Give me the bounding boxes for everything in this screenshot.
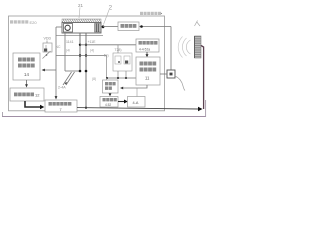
svg-text:14: 14 xyxy=(24,72,29,77)
svg-text:7: 7 xyxy=(60,108,62,112)
svg-text:4-4-52a: 4-4-52a xyxy=(139,48,150,52)
svg-text:11: 11 xyxy=(145,76,150,81)
svg-text:E20: E20 xyxy=(30,20,38,25)
svg-text:2-4A: 2-4A xyxy=(58,86,66,90)
svg-text:+11E: +11E xyxy=(88,40,97,44)
svg-text:NC: NC xyxy=(56,45,61,49)
svg-text:(4): (4) xyxy=(90,49,94,53)
svg-text:4.52: 4.52 xyxy=(105,103,111,107)
svg-text:1141: 1141 xyxy=(66,40,74,44)
svg-text:12: 12 xyxy=(35,93,40,98)
svg-text:(8): (8) xyxy=(92,77,96,81)
svg-text:(4i: (4i xyxy=(66,49,70,53)
svg-text:21: 21 xyxy=(78,3,84,8)
svg-text:4-A: 4-A xyxy=(133,101,139,105)
svg-text:VDD: VDD xyxy=(44,37,52,41)
